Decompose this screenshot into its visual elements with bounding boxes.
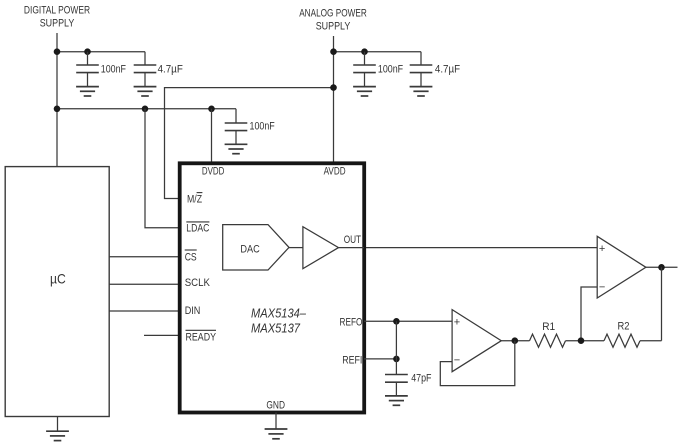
wire R2 to feedback vertical [640,340,662,342]
wire buffer to OUT pin [339,247,365,249]
ground for C3 [225,144,248,153]
svg-text:100nF: 100nF [250,120,275,132]
svg-text:DVDD: DVDD [202,165,225,177]
resistor R1 [530,321,566,347]
wire REFI from chip [364,358,396,360]
capacitor C3 100nF DVDD bypass [225,109,275,144]
wire OUT net to op-amp U2 + [366,247,597,249]
svg-text:µC: µC [50,271,66,287]
pin label M/Z with overline on Z [187,193,202,206]
node junction lower rail / supply [54,106,61,113]
wire GND pin lead [275,413,277,429]
wire DIN uC to chip [109,310,178,312]
wire digital supply vertical to uC [56,33,58,167]
svg-text:M/Z: M/Z [187,193,202,205]
ground for C5 [410,87,433,96]
node junction REFO / REFI tie [393,318,400,325]
wire U2 feedback vertical to R2 [661,267,663,340]
resistor R2 [604,320,640,347]
svg-text:MAX5137: MAX5137 [251,321,301,335]
svg-text:4.7µF: 4.7µF [435,63,460,75]
capacitor C6 47pF [385,373,432,396]
ground for C4 [353,87,376,96]
svg-text:SUPPLY: SUPPLY [40,18,75,30]
pin label CS with overline [185,250,197,263]
wire analog supply vertical to AVDD [333,36,335,162]
node junction lower rail / LDAC drop [142,106,149,113]
node junction lower rail / DVDD drop [208,106,215,113]
ground for C2 [134,87,157,96]
wire uC ground lead [57,417,59,431]
wire DVDD drop [211,109,213,162]
wire digital top rail [57,51,145,53]
svg-text:100nF: 100nF [101,63,126,75]
ground for uC [46,431,69,440]
wire REFO-REFI vertical to 47pF [395,321,397,374]
buffer amplifier triangle [303,227,339,269]
op-amp U3 [452,310,501,372]
svg-text:AVDD: AVDD [324,166,346,178]
capacitor C5 4.7uF analog [410,52,461,86]
IC U1 MAX5134-MAX5137 body [180,163,365,412]
svg-text:MAX5134–: MAX5134– [251,307,307,321]
wire U2 output [646,266,678,268]
ground for C1 [76,87,99,96]
svg-text:ANALOG POWER: ANALOG POWER [299,7,367,19]
wire M/Z to analog rail [165,88,334,199]
svg-text:4.7µF: 4.7µF [158,63,183,75]
wire R1 to R2 [566,340,605,342]
pin label READY with overline [186,330,217,343]
node label ANALOG POWER SUPPLY [299,7,367,32]
op-amp U2 [597,236,646,298]
pin label LDAC with overline [186,222,209,235]
wire SCLK uC to chip [109,283,178,285]
wire analog top rail [334,51,422,53]
microcontroller uC box [5,167,109,417]
svg-text:GND: GND [266,400,285,412]
svg-text:DIN: DIN [185,305,201,317]
svg-text:+: + [454,317,460,329]
svg-text:−: − [599,282,605,294]
capacitor C1 100nF digital [76,52,126,86]
capacitor C2 4.7uF digital [134,52,183,86]
wire CS uC to chip [109,256,178,258]
node junction R1/R2/U2 inverting [578,337,585,344]
svg-text:R1: R1 [542,321,555,333]
part number MAX5134-MAX5137 [251,307,307,336]
node junction analog rail / C4 [361,48,368,55]
svg-text:REFI: REFI [342,354,362,366]
svg-text:R2: R2 [618,320,630,332]
svg-text:CS: CS [185,251,197,263]
node label DIGITAL POWER SUPPLY [24,4,90,29]
wire digital lower rail [57,108,236,110]
svg-text:READY: READY [186,332,217,344]
svg-text:100nF: 100nF [378,63,403,75]
wire DAC to buffer [289,247,303,249]
wire U2 inverting input from R1-R2 node [581,287,597,341]
svg-text:LDAC: LDAC [186,222,209,234]
svg-text:DIGITAL POWER: DIGITAL POWER [24,4,90,16]
svg-text:+: + [599,243,605,255]
node junction U3 output / feedback [512,337,519,344]
wire U3 output to R1 [501,340,529,342]
node junction digital rail / C1 [84,48,91,55]
capacitor C4 100nF analog [353,52,403,86]
svg-text:DAC: DAC [240,243,259,255]
svg-text:OUT: OUT [344,234,362,246]
wire U3 feedback loop [440,341,515,386]
wire REFO to op-amp U3 + [364,320,452,322]
node junction U2 output / feedback [658,264,665,271]
svg-text:−: − [454,355,460,367]
wire LDAC drop [145,109,178,228]
node junction REFI / cap [393,356,400,363]
wire READY stub [144,334,178,336]
svg-text:REFO: REFO [340,317,363,329]
svg-text:SUPPLY: SUPPLY [316,20,351,32]
DAC block [223,225,289,270]
node junction analog rail / supply [330,48,337,55]
node junction digital rail / supply [54,48,61,55]
ground for C6 [385,396,408,405]
svg-text:SCLK: SCLK [185,277,211,289]
ground for GND pin [265,429,288,439]
svg-text:47pF: 47pF [411,373,432,385]
node junction analog vertical / M-Z wire [330,84,337,91]
